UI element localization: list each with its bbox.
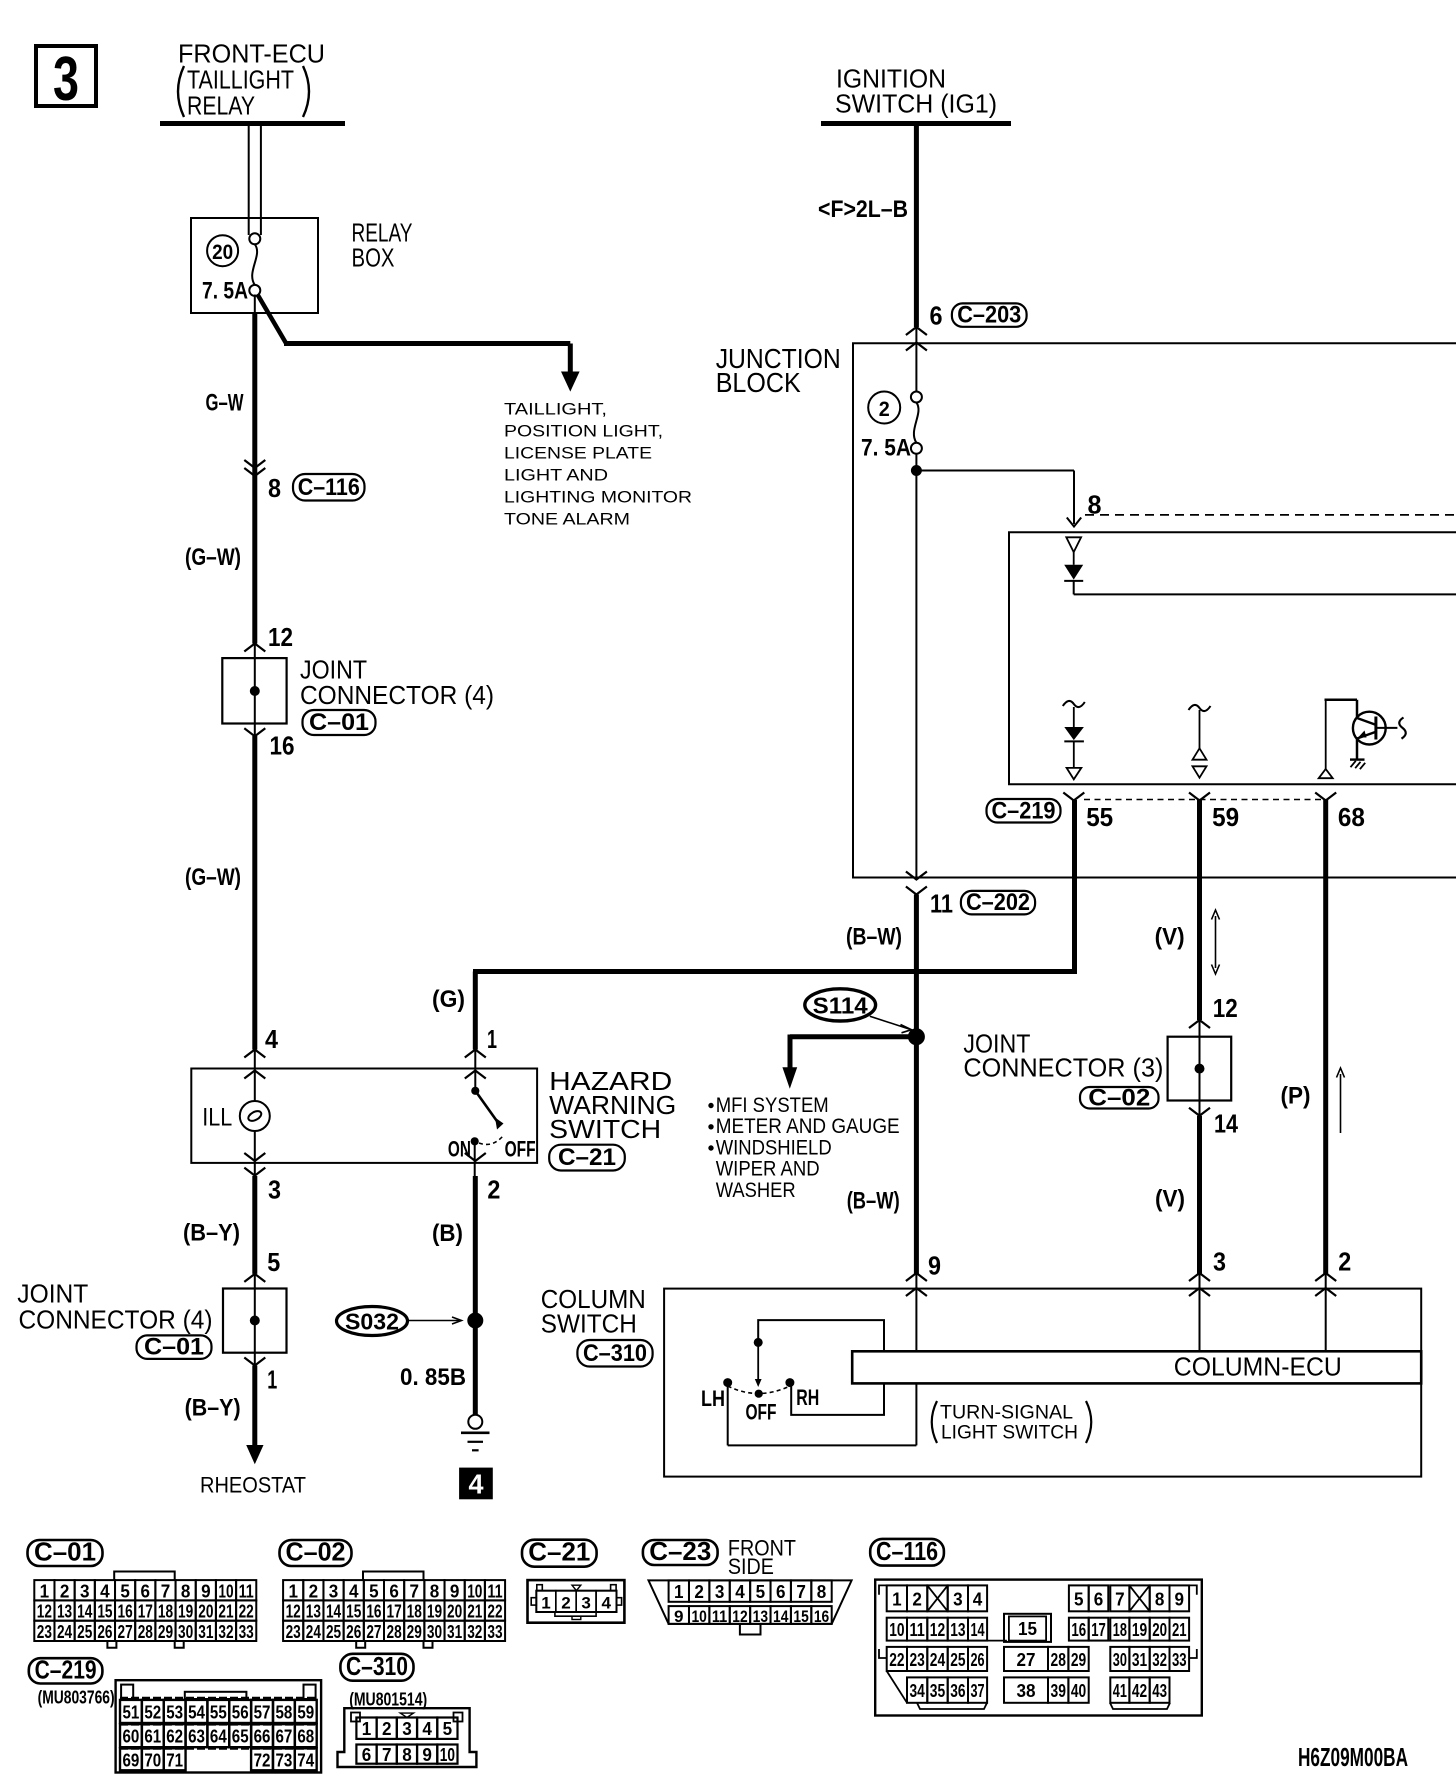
svg-text:C–219: C–219	[992, 797, 1056, 824]
connector crossing wire 9	[906, 1273, 927, 1281]
svg-text:S114: S114	[813, 993, 868, 1019]
wire to taillight circuits	[258, 295, 287, 345]
svg-text:CONNECTOR (3): CONNECTOR (3)	[963, 1053, 1163, 1083]
svg-text:37: 37	[971, 1681, 985, 1701]
svg-text:18: 18	[158, 1602, 173, 1622]
svg-text:9: 9	[422, 1745, 432, 1765]
svg-text:1: 1	[362, 1719, 372, 1739]
wire branch to pin 8	[916, 470, 1074, 472]
connector C-02 pinout	[280, 1540, 352, 1566]
svg-text:(MU801514): (MU801514)	[349, 1690, 427, 1710]
svg-text:(P): (P)	[1281, 1083, 1311, 1110]
direction arrow V	[1215, 916, 1217, 968]
diode D1 input	[1066, 537, 1081, 552]
svg-text:6: 6	[362, 1745, 372, 1765]
svg-text:SWITCH: SWITCH	[541, 1309, 637, 1339]
ground transistor emitter	[1350, 758, 1365, 760]
svg-text:32: 32	[1152, 1650, 1167, 1670]
svg-text:14: 14	[1214, 1109, 1238, 1139]
wire V from pin 59	[1197, 800, 1202, 1020]
svg-text:ON: ON	[448, 1137, 471, 1162]
svg-text:19: 19	[427, 1602, 442, 1622]
svg-text:1: 1	[541, 1593, 551, 1612]
svg-text:30: 30	[427, 1622, 442, 1642]
svg-text:RH: RH	[796, 1385, 819, 1410]
column switch box	[664, 1289, 1421, 1477]
svg-text:36: 36	[950, 1681, 965, 1701]
svg-text:7. 5A: 7. 5A	[861, 435, 911, 462]
connector label C-01 lower	[137, 1335, 212, 1359]
svg-text:12: 12	[37, 1602, 52, 1622]
svg-text:8: 8	[1155, 1589, 1165, 1609]
svg-text:31: 31	[198, 1622, 213, 1642]
pin 16	[244, 728, 265, 736]
svg-text:6: 6	[930, 301, 943, 331]
svg-text:29: 29	[158, 1622, 173, 1642]
svg-text:6: 6	[389, 1581, 399, 1601]
svg-text:3: 3	[329, 1581, 339, 1601]
wire fuse to C-202	[915, 454, 917, 878]
svg-text:S032: S032	[345, 1309, 399, 1335]
svg-text:20: 20	[212, 241, 233, 264]
svg-text:51: 51	[123, 1702, 140, 1722]
svg-text:C–116: C–116	[876, 1536, 938, 1566]
svg-text:5: 5	[1074, 1589, 1084, 1609]
svg-text:SWITCH (IG1): SWITCH (IG1)	[835, 89, 997, 119]
svg-text:20: 20	[447, 1602, 462, 1622]
svg-text:11: 11	[910, 1620, 925, 1640]
svg-text:9: 9	[1175, 1589, 1185, 1609]
splice S032	[337, 1307, 408, 1336]
svg-text:1: 1	[267, 1365, 277, 1395]
svg-text:24: 24	[930, 1650, 945, 1670]
connector label C-203	[952, 303, 1027, 326]
svg-text:62: 62	[166, 1727, 183, 1747]
svg-text:43: 43	[1152, 1681, 1167, 1701]
svg-text:22: 22	[889, 1650, 904, 1670]
connector crossing wire 3	[1189, 1273, 1210, 1281]
svg-text:13: 13	[753, 1607, 768, 1626]
connector C-23 pinout	[643, 1540, 718, 1565]
svg-text:42: 42	[1132, 1681, 1147, 1701]
svg-text:74: 74	[297, 1750, 314, 1770]
svg-text:41: 41	[1113, 1681, 1127, 1701]
svg-text:14: 14	[326, 1602, 341, 1622]
svg-text:10: 10	[691, 1607, 706, 1626]
svg-text:WASHER: WASHER	[716, 1179, 796, 1202]
svg-text:2: 2	[382, 1719, 392, 1739]
dashed connector line C-219 top	[1085, 514, 1456, 516]
svg-text:25: 25	[326, 1622, 341, 1642]
svg-text:20: 20	[1152, 1620, 1167, 1640]
svg-text:16: 16	[1071, 1620, 1086, 1640]
svg-text:2: 2	[561, 1593, 571, 1612]
svg-text:8: 8	[402, 1745, 412, 1765]
svg-text:25: 25	[77, 1622, 92, 1642]
svg-text:59: 59	[1212, 802, 1239, 832]
svg-text:(V): (V)	[1155, 924, 1185, 951]
svg-text:29: 29	[407, 1622, 422, 1642]
svg-text:22: 22	[487, 1602, 502, 1622]
wire 2L-B	[914, 126, 919, 327]
connector label C-116	[293, 474, 365, 501]
svg-text:17: 17	[138, 1602, 153, 1622]
svg-text:52: 52	[144, 1702, 161, 1722]
svg-text:4: 4	[349, 1581, 359, 1601]
svg-text:4: 4	[973, 1589, 983, 1609]
svg-text:C–02: C–02	[1088, 1084, 1150, 1111]
svg-text:11: 11	[712, 1607, 727, 1626]
svg-text:12: 12	[286, 1602, 301, 1622]
svg-text:22: 22	[239, 1602, 254, 1622]
svg-text:67: 67	[275, 1727, 292, 1747]
svg-text:7: 7	[161, 1581, 171, 1601]
svg-text:BLOCK: BLOCK	[716, 367, 801, 398]
svg-text:12: 12	[1213, 993, 1238, 1023]
svg-text:14: 14	[971, 1620, 985, 1640]
svg-text:10: 10	[218, 1581, 233, 1601]
svg-text:13: 13	[57, 1602, 72, 1622]
svg-text:METER AND GAUGE: METER AND GAUGE	[716, 1115, 900, 1138]
svg-text:4: 4	[100, 1581, 110, 1601]
svg-text:CONNECTOR (4): CONNECTOR (4)	[19, 1305, 213, 1335]
svg-text:21: 21	[467, 1602, 482, 1622]
svg-text:POSITION LIGHT,: POSITION LIGHT,	[504, 423, 663, 441]
svg-text:10: 10	[440, 1745, 455, 1765]
svg-text:<F>2L–B: <F>2L–B	[818, 196, 908, 223]
sheet ref 4 box	[460, 1468, 493, 1499]
connector crossing C-219 pins	[1063, 793, 1084, 801]
svg-text:65: 65	[232, 1727, 249, 1747]
junction dot S114	[908, 1029, 924, 1045]
svg-text:LIGHTING MONITOR: LIGHTING MONITOR	[504, 489, 692, 507]
svg-text:39: 39	[1051, 1681, 1066, 1701]
svg-text:C–116: C–116	[298, 474, 360, 501]
svg-text:C–23: C–23	[649, 1536, 711, 1566]
svg-text:1: 1	[40, 1581, 50, 1601]
svg-text:26: 26	[346, 1622, 361, 1642]
connector label C-219	[987, 799, 1061, 823]
svg-text:11: 11	[239, 1581, 254, 1601]
COLUMN-ECU box	[852, 1351, 1421, 1383]
svg-text:20: 20	[198, 1602, 213, 1622]
connector label C-01 upper	[303, 710, 376, 735]
connector crossing 8 C-116	[244, 460, 265, 468]
svg-text:C–21: C–21	[558, 1144, 616, 1171]
svg-text:(B–W): (B–W)	[847, 1188, 900, 1215]
wire B-Y	[252, 1176, 257, 1274]
svg-text:12: 12	[268, 622, 293, 652]
svg-text:3: 3	[53, 45, 79, 114]
svg-text:1: 1	[288, 1581, 298, 1601]
svg-text:40: 40	[1071, 1681, 1086, 1701]
svg-text:C–02: C–02	[286, 1537, 346, 1567]
hazard warning switch box	[191, 1069, 537, 1163]
svg-text:C–219: C–219	[35, 1654, 97, 1684]
svg-text:4: 4	[422, 1719, 432, 1739]
svg-text:WINDSHIELD: WINDSHIELD	[716, 1136, 832, 1159]
pin 14	[1189, 1108, 1210, 1116]
fuse 20 7.5A in relay box	[207, 235, 238, 266]
svg-text:5: 5	[443, 1719, 453, 1739]
connector crossing 6 C-203	[906, 327, 927, 335]
svg-text:29: 29	[1071, 1650, 1086, 1670]
wire B-Y to rheostat	[252, 1366, 257, 1448]
junction block internal unit box	[1009, 532, 1456, 784]
svg-text:2: 2	[487, 1175, 500, 1205]
svg-text:C–01: C–01	[309, 709, 369, 736]
svg-text:MFI SYSTEM: MFI SYSTEM	[716, 1094, 829, 1117]
svg-text:(B–W): (B–W)	[846, 924, 902, 951]
svg-text:31: 31	[447, 1622, 462, 1642]
svg-text:17: 17	[1091, 1620, 1106, 1640]
illumination lamp ILL	[254, 1050, 256, 1102]
connector C-01 pinout	[28, 1540, 103, 1566]
svg-text:70: 70	[144, 1750, 161, 1770]
wire G-W from relay	[254, 295, 256, 314]
wire B-W	[914, 895, 919, 1275]
wire V lower	[1197, 1116, 1202, 1274]
svg-text:2: 2	[694, 1582, 704, 1602]
svg-text:15: 15	[97, 1602, 112, 1622]
ground	[468, 1415, 482, 1429]
transistor Q1 output 68	[1325, 700, 1327, 769]
direction arrow P	[1340, 1074, 1342, 1133]
svg-text:LIGHT SWITCH: LIGHT SWITCH	[941, 1422, 1078, 1444]
svg-text:10: 10	[889, 1620, 904, 1640]
svg-text:10: 10	[467, 1581, 482, 1601]
svg-text:4: 4	[735, 1582, 745, 1602]
svg-text:12: 12	[930, 1620, 945, 1640]
svg-text:11: 11	[487, 1581, 502, 1601]
svg-text:5: 5	[756, 1582, 766, 1602]
svg-text:32: 32	[218, 1622, 233, 1642]
svg-text:23: 23	[286, 1622, 301, 1642]
base resistor squiggle	[1376, 727, 1398, 729]
svg-text:16: 16	[366, 1602, 381, 1622]
svg-text:C–01: C–01	[34, 1537, 96, 1567]
svg-text:RELAY: RELAY	[187, 91, 255, 121]
svg-text:OFF: OFF	[746, 1400, 777, 1425]
svg-text:14: 14	[773, 1607, 789, 1626]
svg-text:3: 3	[1213, 1247, 1226, 1277]
svg-text:6: 6	[141, 1581, 151, 1601]
svg-text:30: 30	[1113, 1650, 1127, 1670]
svg-text:27: 27	[118, 1622, 133, 1642]
svg-text:H6Z09M00BA: H6Z09M00BA	[1298, 1742, 1408, 1772]
joint connector (4) C-01 lower	[223, 1289, 287, 1353]
svg-text:1: 1	[487, 1024, 497, 1054]
svg-text:COLUMN-ECU: COLUMN-ECU	[1174, 1354, 1342, 1382]
svg-text:34: 34	[910, 1681, 925, 1701]
svg-text:7: 7	[1115, 1589, 1125, 1609]
svg-text:2: 2	[912, 1589, 922, 1609]
svg-text:7. 5A: 7. 5A	[202, 278, 248, 305]
svg-text:TURN-SIGNAL: TURN-SIGNAL	[940, 1401, 1073, 1423]
svg-text:26: 26	[97, 1622, 112, 1642]
svg-text:61: 61	[144, 1727, 161, 1747]
svg-text:(V): (V)	[1155, 1186, 1185, 1213]
svg-text:59: 59	[297, 1702, 314, 1722]
svg-text:LICENSE PLATE: LICENSE PLATE	[504, 445, 652, 463]
wire to relay box	[248, 126, 250, 235]
svg-text:21: 21	[1172, 1620, 1187, 1640]
svg-text:18: 18	[407, 1602, 422, 1622]
svg-text:28: 28	[138, 1622, 153, 1642]
svg-text:7: 7	[382, 1745, 392, 1765]
svg-text:58: 58	[275, 1702, 292, 1722]
diode D2 output 55	[1063, 701, 1085, 707]
svg-text:(MU803766): (MU803766)	[38, 1688, 115, 1708]
svg-text:SWITCH: SWITCH	[549, 1114, 661, 1144]
svg-text:3: 3	[715, 1582, 725, 1602]
svg-text:33: 33	[239, 1622, 254, 1642]
svg-text:WIPER AND: WIPER AND	[716, 1158, 820, 1181]
svg-text:19: 19	[178, 1602, 193, 1622]
svg-text:LIGHT AND: LIGHT AND	[504, 467, 608, 485]
svg-text:12: 12	[732, 1607, 747, 1626]
note MFI system loads	[709, 1103, 713, 1107]
svg-text:C–202: C–202	[966, 889, 1030, 916]
svg-text:4: 4	[265, 1024, 278, 1054]
connector crossing wire 2	[1315, 1273, 1336, 1281]
svg-text:3: 3	[953, 1589, 963, 1609]
splice S114	[805, 989, 876, 1021]
wire internal to right	[1074, 593, 1456, 595]
svg-text:G–W: G–W	[206, 390, 244, 417]
svg-text:LH: LH	[701, 1386, 725, 1411]
svg-text:(B): (B)	[432, 1220, 463, 1247]
svg-text:24: 24	[306, 1622, 321, 1642]
svg-text:C–203: C–203	[957, 302, 1021, 329]
svg-text:66: 66	[254, 1727, 271, 1747]
svg-text:25: 25	[950, 1650, 965, 1670]
svg-text:8: 8	[817, 1582, 827, 1602]
svg-text:8: 8	[268, 473, 281, 503]
hazard switch contact	[474, 1050, 476, 1091]
svg-text:21: 21	[218, 1602, 233, 1622]
pin 3 hazard	[244, 1168, 265, 1176]
svg-text:30: 30	[178, 1622, 193, 1642]
svg-text:35: 35	[930, 1681, 945, 1701]
svg-text:(G–W): (G–W)	[185, 544, 241, 571]
svg-text:72: 72	[254, 1750, 271, 1770]
connector C-116 pinout	[870, 1539, 944, 1566]
svg-text:14: 14	[77, 1602, 92, 1622]
svg-text:63: 63	[188, 1727, 205, 1747]
svg-text:28: 28	[387, 1622, 402, 1642]
svg-text:68: 68	[1338, 802, 1365, 832]
svg-text:19: 19	[1132, 1620, 1147, 1640]
svg-text:OFF: OFF	[505, 1137, 536, 1162]
joint connector (3) C-02	[1168, 1037, 1232, 1101]
svg-text:26: 26	[971, 1650, 985, 1670]
svg-text:7: 7	[796, 1582, 806, 1602]
svg-text:55: 55	[210, 1702, 227, 1722]
svg-text:9: 9	[674, 1607, 684, 1626]
svg-text:8: 8	[430, 1581, 440, 1601]
svg-text:BOX: BOX	[352, 243, 395, 273]
svg-text:15: 15	[346, 1602, 361, 1622]
svg-text:9: 9	[201, 1581, 211, 1601]
bus bar ignition switch	[821, 121, 1011, 126]
wire branch to MFI system	[790, 1034, 916, 1039]
svg-text:ILL: ILL	[202, 1104, 232, 1132]
svg-text:C–310: C–310	[346, 1651, 408, 1681]
svg-text:71: 71	[166, 1750, 183, 1770]
svg-text:2: 2	[60, 1581, 70, 1601]
connector label C-202	[961, 891, 1035, 915]
junction block border	[853, 343, 1456, 877]
svg-text:69: 69	[123, 1750, 140, 1770]
svg-text:54: 54	[188, 1702, 205, 1722]
svg-text:(G–W): (G–W)	[185, 864, 241, 891]
joint connector (4) C-01 upper	[222, 658, 286, 723]
svg-text:(B–Y): (B–Y)	[185, 1395, 241, 1422]
pin 1	[244, 1358, 265, 1366]
svg-text:13: 13	[306, 1602, 321, 1622]
svg-text:33: 33	[1172, 1650, 1187, 1670]
svg-text:TAILLIGHT,: TAILLIGHT,	[504, 401, 607, 419]
svg-text:2: 2	[309, 1581, 319, 1601]
svg-text:3: 3	[581, 1593, 591, 1612]
connector label C-02	[1080, 1087, 1159, 1109]
output 59 internal	[1189, 705, 1211, 711]
svg-text:3: 3	[80, 1581, 90, 1601]
svg-text:SIDE: SIDE	[728, 1554, 774, 1579]
relay box	[191, 218, 318, 313]
svg-text:32: 32	[467, 1622, 482, 1642]
turn signal switch contacts	[758, 1320, 884, 1415]
svg-text:3: 3	[268, 1175, 281, 1205]
svg-text:31: 31	[1132, 1650, 1147, 1670]
svg-text:3: 3	[402, 1719, 412, 1739]
wire G-W lower segment	[252, 736, 257, 1050]
svg-text:16: 16	[814, 1607, 829, 1626]
svg-text:11: 11	[930, 889, 953, 919]
svg-text:C–21: C–21	[528, 1537, 590, 1567]
svg-text:17: 17	[387, 1602, 402, 1622]
wire P from pin 68	[1323, 800, 1328, 1274]
svg-text:5: 5	[369, 1581, 379, 1601]
svg-text:1: 1	[892, 1589, 902, 1609]
bus bar FRONT-ECU	[160, 121, 345, 126]
svg-text:73: 73	[275, 1750, 292, 1770]
svg-text:(G): (G)	[432, 986, 465, 1013]
fuse 2 7.5A junction block	[915, 327, 917, 392]
svg-text:16: 16	[118, 1602, 133, 1622]
connector label C-310	[577, 1340, 652, 1367]
wire LH to pin 9	[727, 1383, 729, 1446]
svg-text:2: 2	[1338, 1247, 1351, 1277]
svg-text:56: 56	[232, 1702, 249, 1722]
svg-text:7: 7	[410, 1581, 420, 1601]
svg-text:1: 1	[674, 1582, 684, 1602]
svg-text:6: 6	[776, 1582, 786, 1602]
svg-text:4: 4	[602, 1593, 612, 1612]
svg-text:15: 15	[1018, 1619, 1037, 1639]
svg-text:13: 13	[950, 1620, 965, 1640]
svg-text:2: 2	[879, 398, 890, 421]
svg-text:33: 33	[487, 1622, 502, 1642]
connector C-21 pinout	[522, 1540, 597, 1567]
svg-text:C–310: C–310	[583, 1340, 647, 1367]
svg-text:57: 57	[254, 1702, 271, 1722]
connector C-310 pinout	[340, 1654, 413, 1681]
svg-text:53: 53	[166, 1702, 183, 1722]
svg-text:27: 27	[1017, 1650, 1036, 1670]
connector label C-21	[549, 1145, 625, 1171]
